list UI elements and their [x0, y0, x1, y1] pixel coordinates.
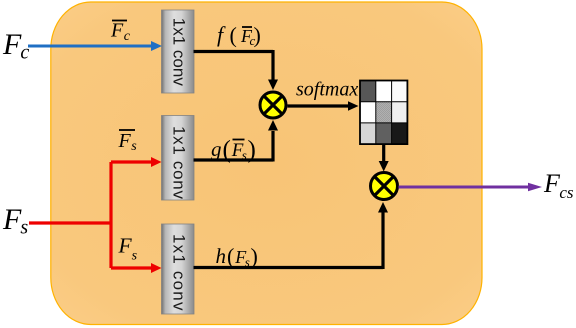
main rounded container box — [51, 2, 482, 325]
svg-text:(: ( — [223, 137, 231, 164]
svg-text:): ) — [251, 244, 258, 269]
svg-text:Fs: Fs — [2, 203, 28, 239]
multiplier M2 (circled X) — [371, 173, 398, 200]
label h(Fs) — [216, 244, 258, 270]
svg-text:h: h — [216, 244, 227, 268]
label f(Fc-bar) — [217, 22, 261, 48]
wire f: U1 output to multiplier M1 — [194, 50, 279, 90]
wire blue: Fc input arrow into U1 — [28, 41, 162, 51]
wire h: U3 output to multiplier M2 — [194, 202, 389, 269]
wire red: Fs trunk and branches into U2 and U3 — [29, 157, 162, 273]
wire purple: M2 output to Fcs — [399, 183, 543, 191]
label Fc-bar over blue wire — [110, 20, 131, 45]
svg-text:): ) — [254, 23, 261, 48]
svg-text:g: g — [211, 137, 222, 161]
svg-text:Fcs: Fcs — [543, 169, 574, 202]
label Fs-bar over red branch — [118, 130, 138, 154]
wire softmax: M1 to attention map grid — [288, 101, 359, 110]
svg-text:(: ( — [227, 244, 234, 269]
wire grid to multiplier M2 — [379, 144, 389, 172]
conv block U3 (bottom, 1x1 conv) — [162, 224, 195, 314]
svg-text:softmax: softmax — [296, 79, 358, 101]
svg-text:1x1 conv: 1x1 conv — [170, 18, 189, 87]
multiplier M1 (circled X) — [260, 92, 286, 118]
attention map grid — [360, 81, 407, 145]
svg-text:s: s — [245, 255, 250, 270]
svg-text:Fc: Fc — [2, 28, 29, 64]
svg-text:s: s — [242, 148, 247, 163]
svg-text:): ) — [248, 137, 256, 164]
svg-text:1x1 conv: 1x1 conv — [170, 234, 189, 312]
conv block U1 (top, 1x1 conv) — [162, 10, 195, 93]
svg-text:1x1 conv: 1x1 conv — [170, 126, 189, 200]
conv block U2 (middle, 1x1 conv) — [162, 116, 195, 201]
wire g: U2 output to multiplier M1 — [194, 120, 279, 162]
label g(Fs-bar) — [211, 137, 256, 164]
svg-text:(: ( — [230, 23, 237, 48]
